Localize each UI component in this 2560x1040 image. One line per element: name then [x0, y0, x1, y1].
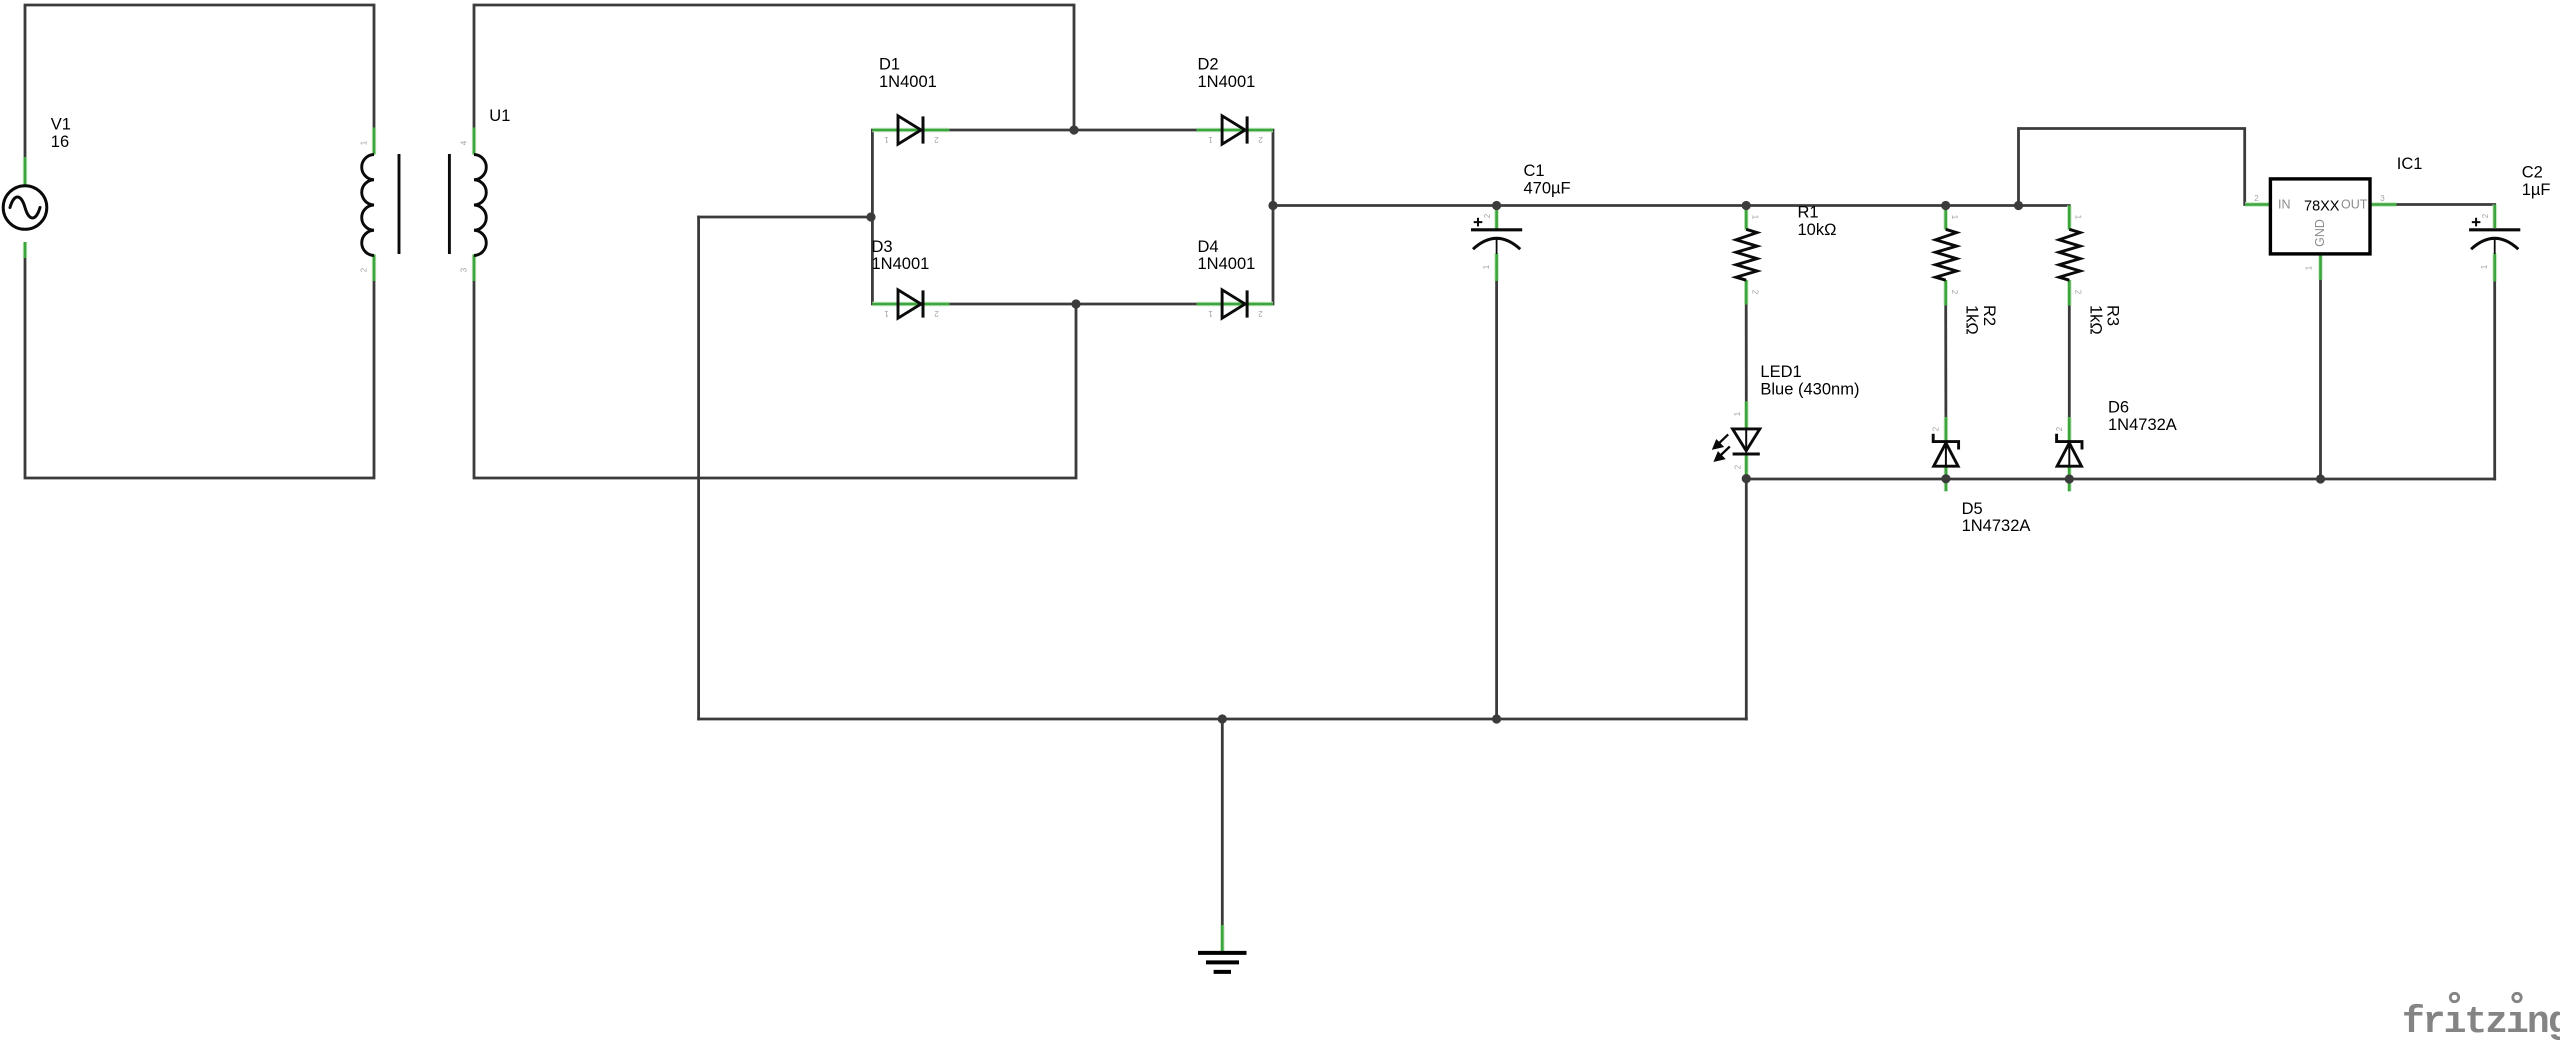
V1 pin 1 — [23, 157, 27, 185]
wire riser to IC1 IN — [2019, 129, 2245, 206]
junction C1 bottom node — [1492, 714, 1501, 723]
diode D4 — [1222, 290, 1247, 318]
svg-text:IC1: IC1 — [2397, 155, 2423, 173]
C2 pin 1 — [2492, 254, 2496, 282]
junction C1 top node — [1492, 201, 1501, 210]
svg-text:2: 2 — [2254, 194, 2259, 203]
wire R3 to D6 link — [2068, 306, 2071, 418]
IC1 pin 2 IN — [2245, 202, 2270, 206]
D5 pin 1 — [1944, 466, 1948, 491]
svg-text:1: 1 — [1733, 411, 1742, 416]
ground symbol — [1198, 953, 1247, 972]
wire V1 top to transformer primary — [25, 5, 374, 158]
U1 pin 3 — [472, 255, 476, 282]
D2 pin 1 — [1197, 128, 1245, 132]
wire transformer secondary top to bridge — [474, 5, 1074, 130]
svg-text:1: 1 — [884, 135, 889, 144]
diode D1 — [898, 116, 923, 144]
svg-text:1: 1 — [1751, 215, 1760, 220]
U1 pin 2 — [372, 255, 376, 282]
svg-text:V116: V116 — [51, 116, 71, 151]
wire C1 lower lead — [1495, 281, 1498, 719]
wire bridge bottom rail middle — [949, 303, 1197, 306]
wire bridge left rail — [871, 130, 874, 304]
svg-text:1: 1 — [2305, 265, 2314, 270]
C2 pin 2 — [2492, 205, 2496, 229]
transformer U1 primary coil — [362, 155, 374, 256]
resistor R3 — [2059, 229, 2080, 280]
wire ground stem — [1221, 719, 1224, 925]
transformer U1 secondary coil — [474, 155, 486, 256]
junction bridge left AC node — [866, 212, 875, 221]
svg-text:OUT: OUT — [2341, 198, 2368, 212]
U1 pin 1 — [372, 128, 376, 155]
junction D5 bottom node — [1941, 474, 1950, 483]
capacitor C1 symbol — [1471, 218, 1522, 254]
svg-text:1: 1 — [1482, 264, 1491, 269]
R3 pin 1 — [2067, 206, 2071, 230]
transformer U1 core — [399, 154, 449, 254]
resistor R2 — [1936, 229, 1957, 280]
svg-text:1: 1 — [1950, 215, 1959, 220]
svg-text:2: 2 — [1751, 290, 1760, 295]
wire ground bus — [1746, 478, 2494, 481]
junction bridge right output node — [1268, 201, 1277, 210]
svg-text:U1: U1 — [489, 107, 510, 125]
R1 pin 2 — [1744, 280, 1748, 305]
wire IC1 GND drop — [2319, 280, 2322, 479]
junction R2 top node — [1941, 201, 1950, 210]
svg-text:2: 2 — [360, 267, 369, 272]
svg-text:2: 2 — [1734, 464, 1743, 469]
diode D3 — [898, 290, 923, 318]
D6 pin 2 — [2067, 417, 2071, 441]
V1 pin 2 — [23, 242, 27, 258]
junction R1 top node — [1742, 201, 1751, 210]
svg-text:4: 4 — [460, 140, 469, 145]
svg-text:2: 2 — [2481, 213, 2490, 218]
wire C2 lower lead — [2493, 282, 2496, 480]
R3 pin 2 — [2067, 280, 2071, 306]
svg-text:1: 1 — [884, 309, 889, 318]
D4 pin 2 — [1248, 302, 1273, 306]
junction bridge top node — [1069, 125, 1078, 134]
D4 pin 1 — [1197, 302, 1245, 306]
wire IC1 OUT to C2 — [2397, 203, 2495, 206]
wire bridge top rail middle — [949, 129, 1197, 132]
svg-text:1: 1 — [1208, 309, 1213, 318]
svg-text:2: 2 — [2074, 290, 2083, 295]
svg-text:2: 2 — [1483, 213, 1492, 218]
svg-text:2: 2 — [1950, 290, 1959, 295]
svg-text:2: 2 — [934, 135, 939, 144]
wire AC input into bridge left — [699, 216, 871, 219]
C1 pin 2 — [1494, 206, 1498, 230]
D6 pin 1 — [2067, 466, 2071, 491]
fritzing watermark logo — [2402, 993, 2560, 1040]
wire bridge right rail — [1272, 130, 1275, 304]
junction LED1 bottom node — [1742, 474, 1751, 483]
ground symbol pin — [1220, 925, 1224, 953]
wire main positive rail — [1273, 204, 2069, 207]
D3 pin 2 — [924, 302, 949, 306]
wire R1 to LED1 link — [1745, 305, 1748, 402]
D2 pin 2 — [1248, 128, 1273, 132]
capacitor C2 symbol — [2469, 218, 2520, 254]
svg-text:2: 2 — [1258, 135, 1263, 144]
svg-text:1: 1 — [1208, 135, 1213, 144]
svg-text:78XX: 78XX — [2304, 199, 2340, 215]
U1 pin 4 — [472, 128, 476, 155]
svg-text:1: 1 — [2074, 215, 2083, 220]
svg-text:2: 2 — [1258, 309, 1263, 318]
junction IC1 GND node — [2316, 474, 2325, 483]
svg-text:IN: IN — [2278, 198, 2291, 212]
wire transformer secondary bottom to bridge — [474, 281, 1076, 478]
wire bottom return rail — [699, 718, 1747, 721]
R2 pin 1 — [1943, 206, 1947, 230]
IC1 pin 1 GND — [2318, 254, 2322, 280]
D1 pin 1 — [872, 128, 921, 132]
diode D2 — [1222, 116, 1247, 144]
resistor R1 — [1736, 229, 1757, 280]
C1 pin 1 — [1494, 254, 1498, 282]
svg-text:2: 2 — [2055, 426, 2064, 431]
svg-text:1: 1 — [2480, 264, 2489, 269]
svg-text:2: 2 — [1932, 426, 1941, 431]
LED1 pin 1 — [1744, 401, 1748, 429]
IC1 78XX regulator box — [2270, 179, 2370, 254]
svg-text:GND: GND — [2313, 219, 2327, 247]
wire V1 bottom to transformer primary — [25, 258, 374, 478]
zener diode D5 — [1933, 434, 1958, 467]
zener diode D6 — [2057, 434, 2082, 467]
junction IC riser node — [2014, 201, 2023, 210]
LED1 pin 2 — [1744, 454, 1748, 478]
junction ground stem node — [1218, 714, 1227, 723]
svg-text:1: 1 — [360, 140, 369, 145]
R1 pin 1 — [1744, 206, 1748, 230]
LED LED1 — [1714, 429, 1760, 461]
D5 pin 2 — [1944, 417, 1948, 441]
svg-text:3: 3 — [2380, 194, 2385, 203]
svg-text:2: 2 — [934, 309, 939, 318]
junction bridge bottom node — [1071, 299, 1080, 308]
svg-text:frıtzıng: frıtzıng — [2402, 1001, 2560, 1040]
wire LED1 drop to return rail — [1745, 479, 1748, 719]
junction D6 bottom node — [2065, 474, 2074, 483]
D3 pin 1 — [872, 302, 921, 306]
R2 pin 2 — [1943, 280, 1947, 306]
wire R2 to D5 link — [1944, 306, 1947, 418]
D1 pin 2 — [924, 128, 949, 132]
IC1 pin 3 OUT — [2370, 202, 2397, 206]
AC source V1 — [3, 186, 47, 230]
svg-text:3: 3 — [460, 267, 469, 272]
wire left vertical drop — [697, 217, 700, 719]
